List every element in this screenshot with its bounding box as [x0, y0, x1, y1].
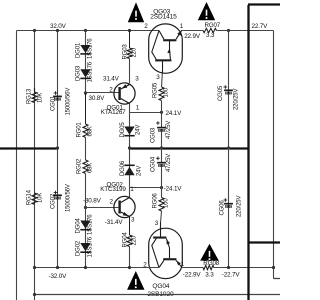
wire RG07 to 22.7V	[217, 30, 274, 32]
capacitor CG02 15000/56V	[54, 192, 58, 194]
wire DG05 column	[129, 112, 131, 187]
resistor RG07 3.3	[203, 28, 217, 32]
node CG05 tap	[227, 29, 230, 32]
svg-text:-32.0V: -32.0V	[49, 273, 68, 280]
node CG06 tap	[227, 266, 230, 269]
capacitor CG03 47/25V	[161, 112, 163, 127]
node -30.8V bias node	[84, 206, 87, 209]
resistor RG03 220	[129, 31, 131, 49]
wire corner to right edge	[274, 278, 281, 280]
node mid-C junction	[56, 146, 59, 149]
svg-text:30.8V: 30.8V	[89, 95, 106, 102]
svg-text:1SS176: 1SS176	[88, 236, 94, 257]
wire left bus column A	[16, 31, 18, 300]
node 24.1V node	[160, 111, 163, 114]
svg-text:DG06: DG06	[120, 160, 126, 176]
wire QG01 collector down	[129, 104, 131, 113]
svg-text:-22.9V: -22.9V	[183, 271, 202, 278]
svg-text:CG05: CG05	[218, 85, 224, 101]
wire QG01 collector to 24.1V node	[130, 112, 162, 114]
node -22.7V tap	[272, 266, 275, 269]
wire 22.7V vertical feed	[273, 31, 275, 279]
node bottom rail junction E	[128, 266, 131, 269]
warning triangle T4	[200, 244, 219, 261]
svg-text:15000/56V: 15000/56V	[65, 184, 71, 212]
svg-text:24V: 24V	[135, 125, 141, 135]
svg-text:CG06: CG06	[220, 200, 226, 216]
diode DG03 1SS176	[80, 69, 90, 77]
svg-text:68K: 68K	[88, 163, 94, 173]
diode DG01 1SS176	[80, 45, 90, 53]
svg-text:-22.7V: -22.7V	[222, 271, 241, 278]
svg-text:CG04: CG04	[150, 156, 156, 172]
svg-text:RG14: RG14	[27, 189, 33, 205]
svg-text:220/25V: 220/25V	[236, 196, 242, 217]
svg-text:RG04: RG04	[123, 232, 129, 248]
wire CG03 to mid rail	[161, 132, 163, 148]
svg-text:-24.1V: -24.1V	[164, 185, 183, 192]
svg-text:100: 100	[163, 87, 169, 97]
svg-text:100: 100	[163, 198, 169, 208]
svg-text:220: 220	[132, 235, 138, 245]
wire CG05 column	[228, 31, 230, 149]
svg-text:1SS176: 1SS176	[88, 61, 94, 82]
node rail junction D	[84, 29, 87, 32]
transistor QG02 KTC3199	[114, 196, 135, 217]
node mid-F junction	[160, 146, 163, 149]
svg-text:3.3: 3.3	[206, 32, 215, 39]
resistor RG06 100	[161, 188, 163, 198]
svg-text:RG03: RG03	[123, 44, 129, 60]
svg-text:CG02: CG02	[50, 193, 56, 209]
node lineB junction	[33, 293, 36, 296]
resistor RG02 68K	[83, 160, 88, 174]
svg-text:RG05: RG05	[153, 82, 159, 98]
wire RG01-RG02 link	[85, 137, 87, 160]
svg-text:3.3: 3.3	[205, 271, 214, 278]
wire QG02 collector up	[129, 188, 131, 197]
wire QG02 base wire	[86, 207, 119, 209]
svg-text:24.1V: 24.1V	[166, 110, 183, 117]
diode DG04 1SS176	[80, 221, 90, 229]
wire right block border bottom	[248, 241, 280, 243]
wire RG03 to QG01 emitter	[129, 59, 131, 84]
svg-text:KTA1267: KTA1267	[101, 109, 126, 116]
wire RG05 to 24.1V node	[161, 101, 163, 113]
svg-text:10K: 10K	[38, 93, 44, 103]
wire bias column D upper	[85, 31, 87, 93]
svg-text:DG03: DG03	[76, 65, 82, 81]
svg-text:15000/56V: 15000/56V	[65, 88, 71, 116]
wire line B bottom bus	[35, 294, 281, 296]
wire RG08 to -22.7V	[214, 267, 274, 269]
svg-text:2SD1415: 2SD1415	[150, 13, 177, 20]
svg-text:220: 220	[132, 47, 138, 57]
svg-text:DG04: DG04	[76, 218, 82, 234]
svg-text:24V: 24V	[136, 166, 142, 176]
svg-text:47/25V: 47/25V	[166, 121, 172, 139]
node bottom rail junction C	[56, 266, 59, 269]
wire bus column B (RG13/RG14)	[34, 31, 36, 300]
diode DG05 24V	[124, 127, 134, 135]
svg-text:CG03: CG03	[150, 127, 156, 143]
warning triangle T3	[127, 271, 144, 290]
svg-text:-31.4V: -31.4V	[105, 219, 124, 226]
diode DG06 24V	[124, 164, 134, 166]
resistor RG13 10K	[34, 88, 36, 92]
capacitor CG01 15000/56V	[54, 92, 58, 94]
svg-text:32.0V: 32.0V	[50, 23, 67, 30]
svg-text:22.9V: 22.9V	[184, 33, 201, 40]
svg-text:RG13: RG13	[27, 88, 33, 104]
wire QG03 emitter 22.9V output	[182, 30, 203, 32]
node 30.8V bias node	[84, 91, 87, 94]
node bottom rail junction B	[33, 266, 36, 269]
svg-text:22.7V: 22.7V	[252, 23, 269, 30]
svg-text:DG02: DG02	[76, 240, 82, 256]
resistor RG04 220	[129, 217, 131, 236]
wire -32.0V bottom supply rail	[35, 267, 160, 269]
wire RG04 to bottom rail	[129, 247, 131, 268]
resistor RG05 100	[159, 87, 164, 101]
svg-text:KTC3199: KTC3199	[100, 186, 126, 193]
wire right block border vertical	[247, 5, 249, 300]
node -24.1V node	[160, 186, 163, 189]
svg-text:RG02: RG02	[76, 158, 82, 174]
wire right block border top	[248, 3, 280, 5]
svg-text:RG07: RG07	[205, 22, 221, 29]
svg-text:DG01: DG01	[76, 42, 82, 58]
svg-text:QG04: QG04	[152, 283, 169, 290]
wire RG02 to -30.8V node	[85, 174, 87, 208]
svg-text:-30.8V: -30.8V	[83, 197, 102, 204]
wire CG06 column	[228, 148, 230, 268]
svg-text:68K: 68K	[88, 126, 94, 136]
wire mid bus left segment	[0, 147, 58, 149]
wire CG04 to -24.1V node	[161, 167, 163, 188]
svg-text:10K: 10K	[38, 193, 44, 203]
svg-text:RG06: RG06	[153, 193, 159, 209]
wire QG02 collector to -24.1V node	[130, 187, 162, 189]
capacitor CG04 47/25V	[161, 148, 163, 163]
wire bus column C (CG01/CG02)	[57, 31, 59, 268]
wire 32.0V top supply rail	[17, 30, 160, 32]
svg-text:RG01: RG01	[76, 122, 82, 138]
svg-text:31.4V: 31.4V	[103, 76, 120, 83]
svg-text:220/25V: 220/25V	[233, 89, 239, 110]
wire QG04 emitter -22.9V output	[182, 267, 203, 269]
svg-text:DG05: DG05	[120, 122, 126, 138]
svg-text:1SS176: 1SS176	[88, 214, 94, 235]
wire bias column D lower	[85, 208, 87, 268]
diode DG02 1SS176	[80, 243, 90, 251]
wire RG06 to QG04 base pin 3	[160, 211, 163, 222]
node rail junction E	[128, 29, 131, 32]
warning triangle T1	[128, 2, 144, 22]
node rail junction B	[33, 29, 36, 32]
capacitor CG05 220/25V	[224, 86, 228, 88]
node rail junction C	[56, 29, 59, 32]
capacitor CG06 220/25V	[224, 199, 228, 201]
resistor RG14 10K	[32, 193, 37, 204]
svg-text:1SS176: 1SS176	[88, 38, 94, 59]
node bottom rail junction D	[84, 266, 87, 269]
svg-text:CG01: CG01	[50, 95, 56, 111]
node mid-G junction	[227, 146, 230, 149]
node mid-E junction	[128, 146, 131, 149]
wire QG01 base wire	[86, 92, 119, 94]
svg-text:47/25V: 47/25V	[166, 154, 172, 172]
wire mid bus right segment	[130, 147, 249, 149]
wire QG03 base pin 3 down	[162, 61, 164, 73]
transistor QG01 KTA1267	[114, 83, 135, 104]
warning triangle T2	[198, 2, 215, 20]
resistor RG01 68K	[85, 93, 87, 124]
